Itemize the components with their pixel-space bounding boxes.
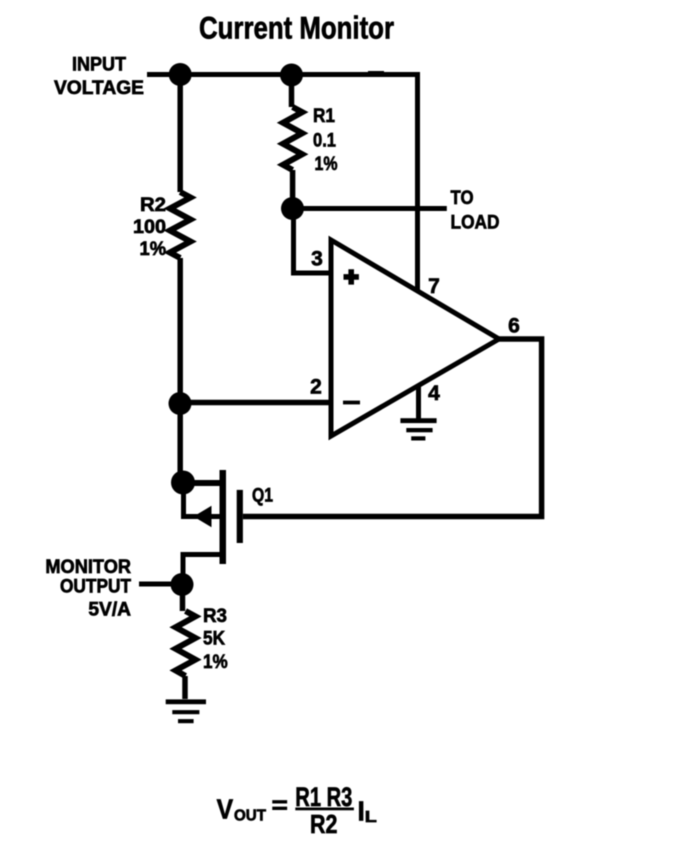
label R3 5K 1% bbox=[203, 606, 228, 673]
source wire bbox=[183, 555, 223, 585]
svg-text:R1: R1 bbox=[313, 106, 335, 127]
wire left rail from input node to R2 bbox=[177, 75, 183, 193]
drain wire bbox=[182, 480, 223, 486]
svg-text:1%: 1% bbox=[203, 652, 228, 673]
wire R1 bottom to to-load node bbox=[290, 170, 296, 209]
svg-text:100: 100 bbox=[133, 217, 166, 238]
resistor R2 zigzag bbox=[170, 192, 191, 258]
svg-text:OUTPUT: OUTPUT bbox=[60, 577, 131, 598]
label R2 100 1% bbox=[133, 195, 166, 260]
svg-text:5K: 5K bbox=[203, 628, 225, 649]
node junction input/R2 bbox=[169, 63, 192, 86]
svg-text:Current Monitor: Current Monitor bbox=[199, 10, 394, 46]
svg-text:MONITOR: MONITOR bbox=[45, 557, 131, 578]
wire pin 2 from left rail node bbox=[180, 400, 331, 406]
wire to load bbox=[293, 206, 447, 211]
wire R1 branch from input node bbox=[289, 75, 295, 107]
minus sign inverting input bbox=[343, 401, 360, 405]
wire R3 to ground bbox=[182, 676, 188, 699]
svg-text:V: V bbox=[217, 794, 234, 825]
node junction monitor output bbox=[171, 573, 194, 596]
arrow bbox=[194, 506, 212, 527]
node junction pin2 / left rail bbox=[169, 392, 192, 415]
wire pin 4 to ground bbox=[416, 386, 421, 419]
ground at R3 bbox=[166, 699, 206, 723]
plus sign noninverting input bbox=[344, 269, 359, 284]
body wire L bbox=[184, 482, 223, 517]
svg-text:R1 R3: R1 R3 bbox=[295, 782, 352, 812]
node junction input/R1 bbox=[280, 64, 303, 87]
label R1 0.1 1% bbox=[313, 106, 338, 175]
svg-text:VOLTAGE: VOLTAGE bbox=[54, 78, 144, 99]
svg-text:INPUT: INPUT bbox=[72, 55, 126, 76]
label INPUT VOLTAGE bbox=[54, 55, 144, 100]
svg-text:L: L bbox=[365, 809, 377, 826]
svg-text:2: 2 bbox=[310, 376, 322, 399]
ground at pin 4 bbox=[400, 418, 436, 440]
wire monitor output bbox=[139, 582, 182, 587]
op-amp U1 triangle bbox=[331, 240, 499, 436]
node junction R1 / to-load bbox=[281, 197, 304, 220]
svg-text:1%: 1% bbox=[315, 154, 338, 175]
wire artifact nub on top rail bbox=[368, 71, 384, 75]
svg-text:LOAD: LOAD bbox=[451, 212, 500, 233]
svg-text:3: 3 bbox=[311, 248, 323, 271]
wire pin3 from to-load node to op-amp bbox=[294, 209, 332, 274]
transistor Q1 bbox=[182, 470, 243, 585]
wire output pin6 to gate bbox=[243, 339, 542, 517]
svg-text:0.1: 0.1 bbox=[313, 131, 336, 152]
svg-text:TO: TO bbox=[451, 188, 474, 209]
label TO LOAD bbox=[451, 188, 500, 233]
formula Vout = R1 R3 / R2 * IL bbox=[217, 782, 377, 839]
svg-text:7: 7 bbox=[428, 275, 440, 298]
svg-text:OUT: OUT bbox=[234, 807, 267, 824]
resistor R1 zigzag bbox=[283, 107, 302, 170]
svg-text:Q1: Q1 bbox=[252, 486, 273, 507]
svg-text:R3: R3 bbox=[203, 606, 227, 627]
label MONITOR OUTPUT 5V/A bbox=[45, 557, 131, 621]
svg-text:R2: R2 bbox=[310, 809, 337, 839]
svg-text:5V/A: 5V/A bbox=[88, 600, 131, 621]
node junction drain / left rail bbox=[171, 471, 195, 495]
wire left rail R2 to drain node bbox=[177, 258, 183, 482]
svg-text:I: I bbox=[358, 795, 365, 826]
svg-text:4: 4 bbox=[428, 382, 440, 405]
svg-text:R2: R2 bbox=[140, 195, 166, 216]
wire monitor node to R3 bbox=[180, 585, 186, 612]
wire input voltage top rail bbox=[147, 75, 418, 292]
svg-text:=: = bbox=[272, 793, 288, 820]
resistor R3 zigzag bbox=[176, 611, 196, 676]
channel bar bbox=[220, 470, 227, 564]
svg-text:1%: 1% bbox=[140, 239, 167, 260]
gate bar bbox=[237, 490, 243, 543]
svg-text:6: 6 bbox=[508, 315, 520, 338]
